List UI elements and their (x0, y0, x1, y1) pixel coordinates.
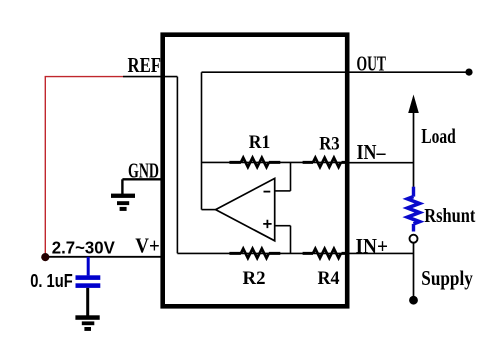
wire: non-inverting row horizontal (R2/R4 row) (177, 252, 347, 254)
node: supply input junction dot (41, 253, 49, 261)
svg-text:0. 1uF: 0. 1uF (30, 270, 72, 291)
svg-text:R2: R2 (243, 268, 266, 289)
node: supply terminal dot (409, 296, 418, 305)
svg-text:REF: REF (128, 53, 162, 77)
wire: IN+ external to shunt bottom (347, 252, 414, 254)
wire: REF vertical inside package down to R2 (176, 77, 178, 254)
svg-text:Rshunt: Rshunt (424, 206, 475, 227)
wire: GND pin to ground (122, 178, 162, 180)
wire: non-inverting junction vertical down to R2/R4 row (290, 226, 292, 254)
svg-text:R3: R3 (319, 134, 340, 155)
svg-text:2.7~30V: 2.7~30V (52, 238, 115, 258)
wire: OUT net left vertical (output riser) (201, 72, 203, 209)
wire: REF horizontal into package (123, 76, 177, 78)
op-amp non-inverting input plus sign (263, 220, 271, 228)
wire: shunt bottom to supply dot (413, 243, 415, 297)
wire: non-inverting input stub (275, 225, 291, 227)
load current arrow (409, 96, 419, 187)
capacitor C1 0.1uF (76, 257, 101, 316)
resistor R4 (303, 249, 347, 258)
wire: feedback junction vertical to inverting input (290, 162, 292, 191)
resistor R3 (303, 158, 347, 167)
svg-text:Load: Load (421, 124, 456, 148)
resistor R2 (229, 249, 280, 258)
ground symbol at GND pin (111, 179, 135, 211)
node: open terminal circle below Rshunt (410, 235, 418, 243)
wire: OUT net top horizontal (op-amp output to OUT pin and external dot) (202, 71, 467, 73)
wire: REF net red vertical drop to V+ node (44, 77, 46, 257)
resistor R1 (229, 158, 280, 167)
svg-text:IN–: IN– (357, 140, 386, 164)
op-amp U1 triangle (216, 178, 275, 240)
wire: inverting input stub (275, 190, 291, 192)
node: OUT terminal dot (465, 69, 472, 76)
wire: V+ supply horizontal (45, 256, 162, 258)
wire: IN- external to shunt top (347, 162, 414, 164)
svg-text:R4: R4 (318, 268, 340, 289)
svg-text:R1: R1 (249, 132, 270, 153)
ground symbol below capacitor (75, 315, 99, 331)
resistor Rshunt (blue) (408, 187, 420, 232)
svg-text:OUT: OUT (357, 52, 387, 76)
op-amp IC package outline U1 (163, 35, 348, 307)
op-amp inverting input minus sign (264, 191, 271, 193)
wire: op-amp output stub (202, 209, 216, 211)
svg-text:V+: V+ (135, 233, 160, 257)
wire: REF net red segment (horizontal, left) (45, 76, 123, 78)
wire: inverting row horizontal (R1/R3 row) (202, 161, 348, 163)
svg-text:Supply: Supply (421, 266, 473, 290)
